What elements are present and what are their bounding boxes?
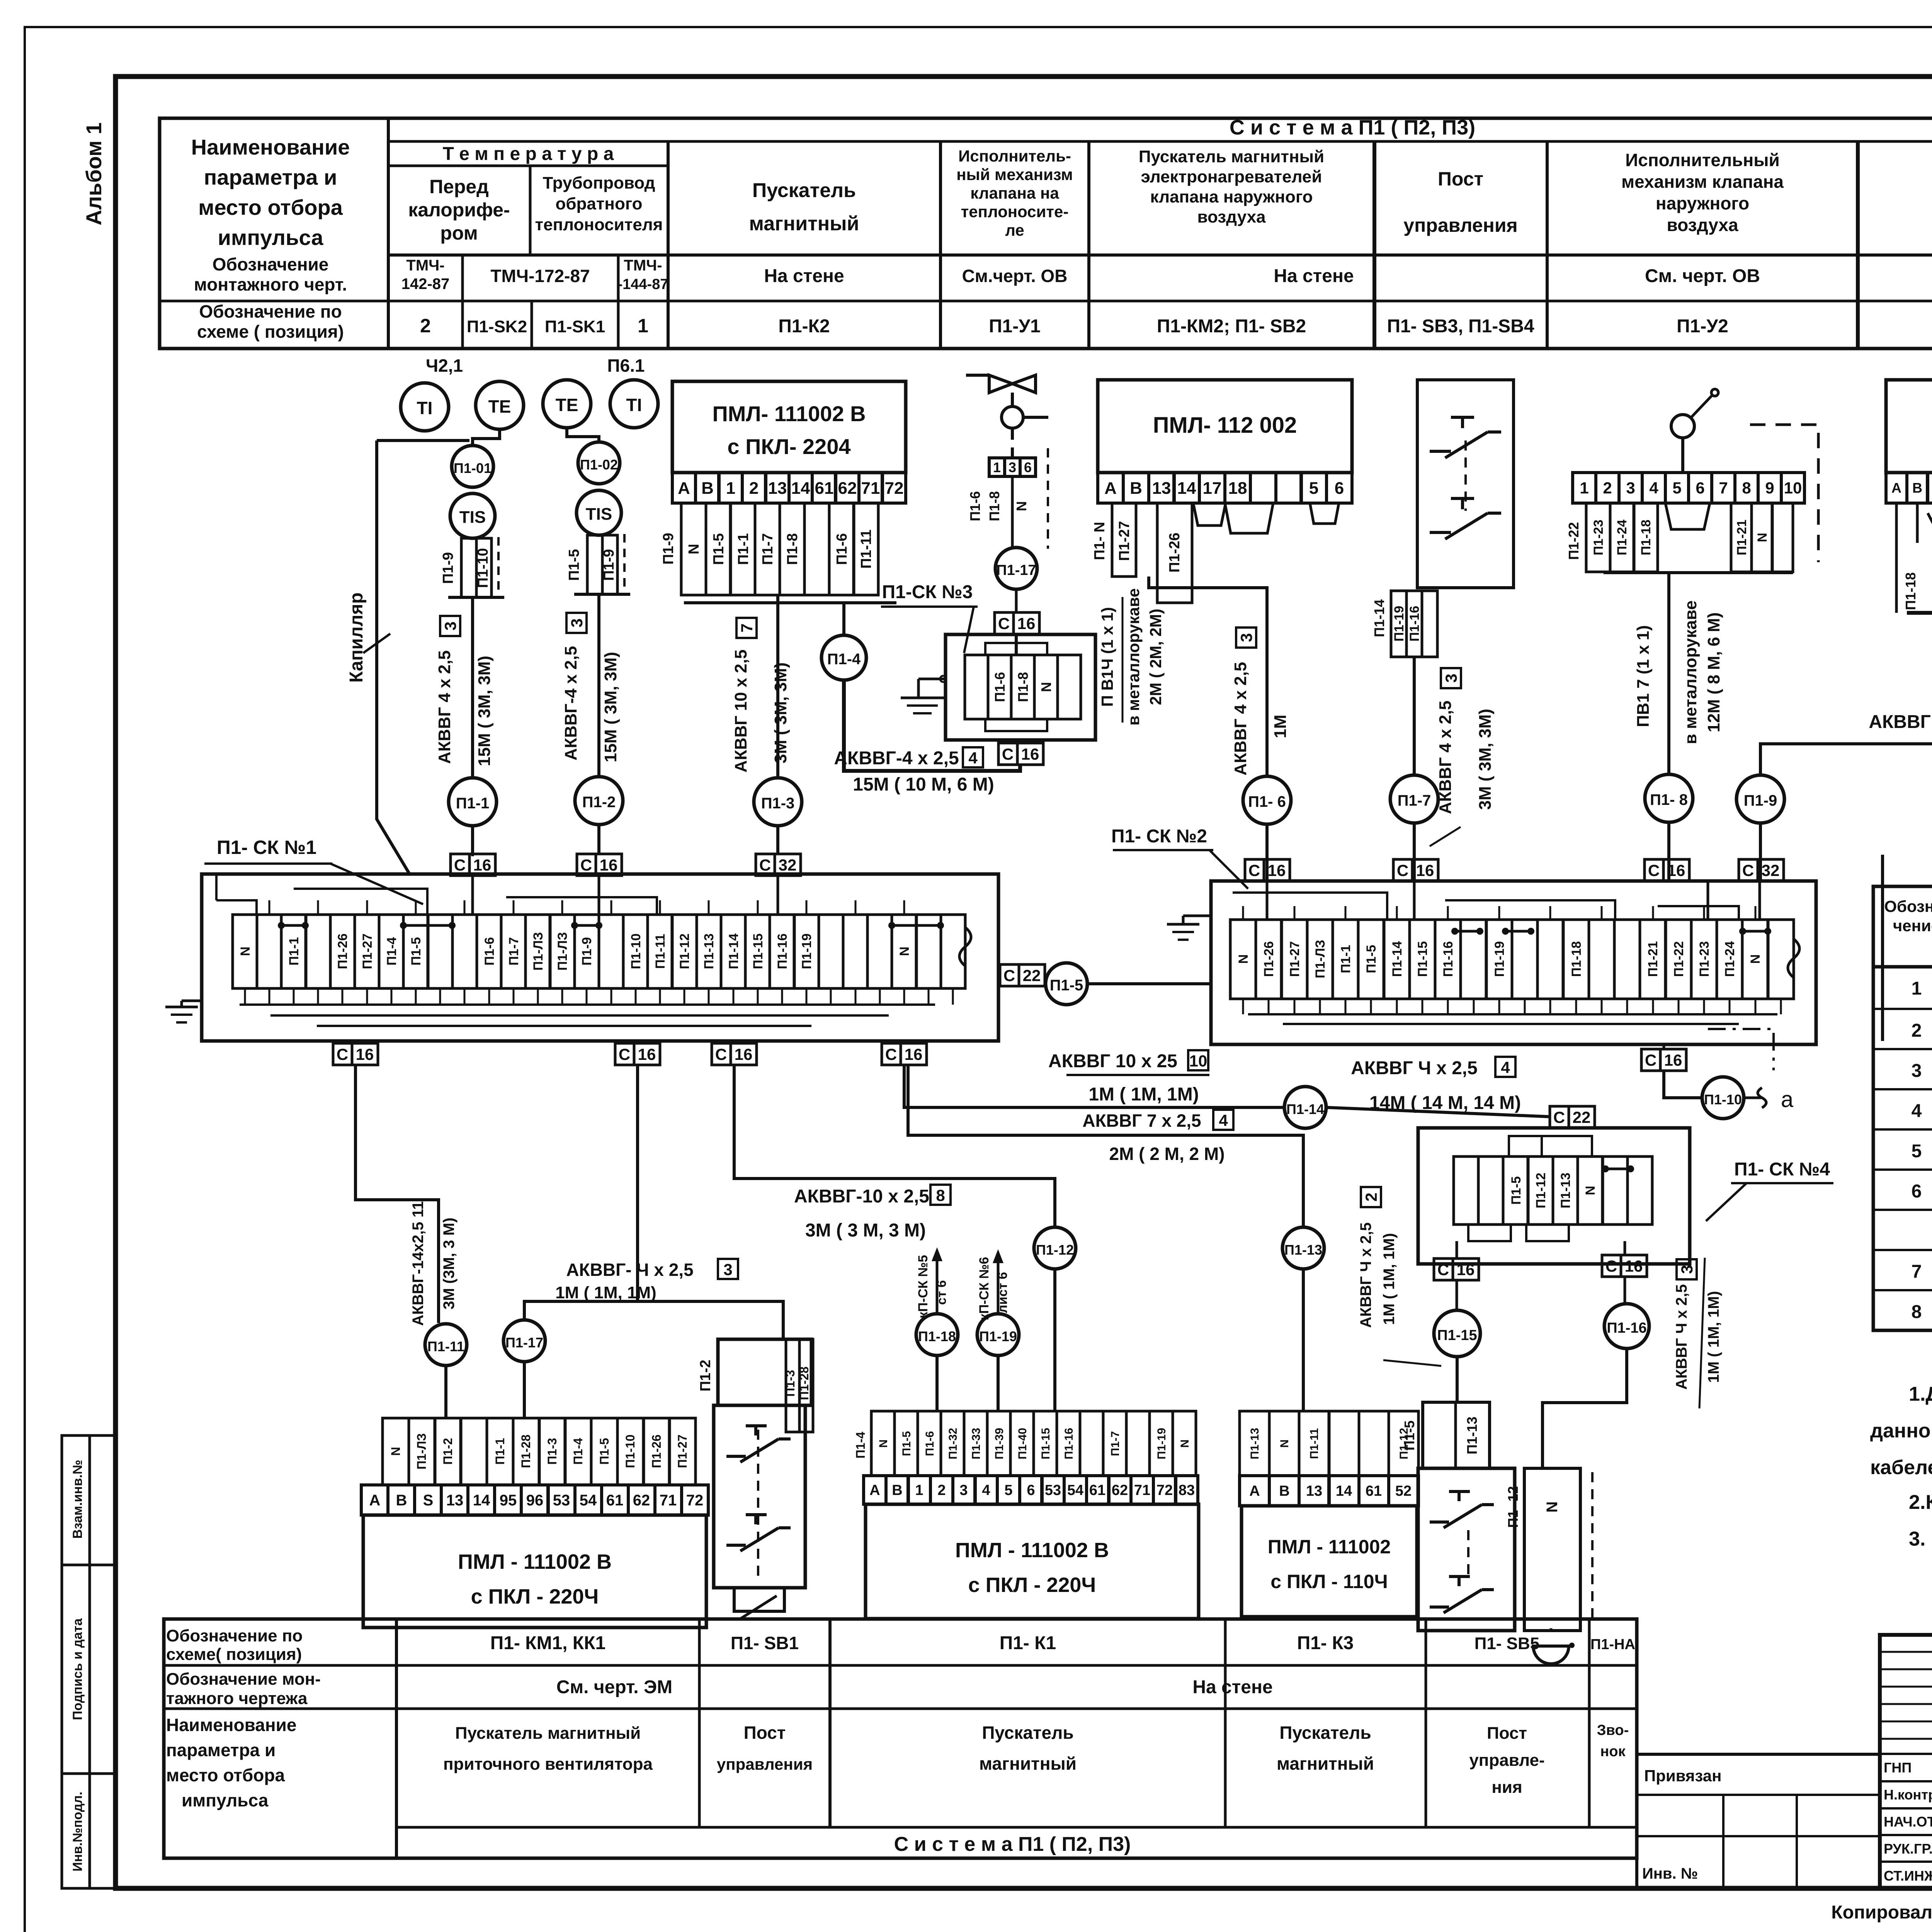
svg-text:71: 71: [1134, 1482, 1150, 1498]
svg-text:53: 53: [553, 1492, 570, 1509]
svg-text:П1-У2: П1-У2: [1677, 316, 1728, 337]
svg-text:П1- SB5: П1- SB5: [1475, 1634, 1540, 1653]
thermostat block: [1417, 380, 1514, 588]
svg-text:П1-19: П1-19: [799, 934, 814, 969]
svg-text:7: 7: [1719, 479, 1728, 497]
svg-text:клапана на: клапана на: [970, 184, 1059, 202]
svg-text:ст 6: ст 6: [934, 1280, 949, 1305]
svg-text:17: 17: [1203, 479, 1222, 498]
svg-text:АКВВГ-14х2,5 11: АКВВГ-14х2,5 11: [410, 1201, 427, 1326]
wire TE to П1-02: [567, 428, 599, 442]
wire П1-3 riser from block: [776, 595, 779, 778]
svg-text:АКВВГ-4 х 2,5: АКВВГ-4 х 2,5: [561, 646, 580, 760]
starter block ПМЛ-151102В: [1886, 380, 1932, 473]
svg-text:с ПКЛ- 2204: с ПКЛ- 2204: [727, 434, 850, 459]
cable label АКВВГ-4х2,5 [3] 1М: [555, 1259, 738, 1302]
svg-text:Обозначение мон-: Обозначение мон-: [166, 1670, 321, 1689]
wire П1-6 riser: [1149, 577, 1267, 776]
svg-text:с ПКЛ - 220Ч: с ПКЛ - 220Ч: [968, 1573, 1096, 1597]
wire to П1-16: [1624, 1277, 1626, 1304]
cable label АКВВГ 10х2,5 [7] 3М: [731, 618, 790, 772]
capillary line: [346, 440, 469, 874]
svg-text:А: А: [1104, 479, 1117, 498]
svg-text:13: 13: [1306, 1483, 1322, 1499]
svg-text:П1-ЛЗ: П1-ЛЗ: [415, 1433, 429, 1469]
wire П1-14 to С22: [1326, 1107, 1550, 1117]
svg-text:TIS: TIS: [459, 508, 486, 527]
svg-text:П1-11: П1-11: [427, 1338, 464, 1354]
svg-text:П1-18: П1-18: [1569, 941, 1584, 977]
svg-text:П1-6: П1-6: [967, 491, 983, 521]
svg-text:15М ( 3М, 3М): 15М ( 3М, 3М): [475, 656, 494, 766]
svg-text:10: 10: [1784, 479, 1802, 497]
left margin attribute boxes: [62, 1435, 116, 1888]
svg-text:П1-9: П1-9: [440, 552, 456, 584]
svg-text:22: 22: [1573, 1108, 1591, 1126]
svg-text:72: 72: [885, 479, 904, 498]
svg-text:П1- N: П1- N: [1092, 522, 1108, 560]
terminal row of ПМЛ-112002: [1098, 473, 1352, 503]
cable label АКВВГ 10х2,5 9 1М: [1869, 712, 1932, 767]
svg-text:управления: управления: [717, 1755, 813, 1773]
svg-text:ТМЧ-172-87: ТМЧ-172-87: [490, 266, 590, 286]
svg-text:АКВВГ 10 х 25: АКВВГ 10 х 25: [1048, 1051, 1177, 1071]
svg-text:С: С: [1397, 861, 1408, 879]
cable marker П1-4: [821, 635, 866, 680]
svg-text:71: 71: [660, 1492, 677, 1509]
svg-text:ПМЛ - 111002: ПМЛ - 111002: [1268, 1536, 1391, 1558]
cable marker П1-19: [977, 1314, 1019, 1355]
svg-text:П1-У1: П1-У1: [989, 316, 1041, 337]
svg-text:16: 16: [1017, 614, 1036, 633]
svg-text:АКВВГ 4 х 2,5: АКВВГ 4 х 2,5: [435, 650, 454, 764]
svg-text:А: А: [369, 1492, 381, 1509]
svg-text:ле: ле: [1005, 221, 1024, 239]
СК1 bottom connector С16 #4: [882, 1043, 927, 1065]
svg-text:14М ( 14 М, 14 М): 14М ( 14 М, 14 М): [1369, 1093, 1521, 1113]
cable marker П1-5: [1045, 963, 1087, 1005]
svg-text:наружного: наружного: [1656, 193, 1749, 213]
cable label АКВВГ 10х25 [10] 1М: [1048, 1050, 1209, 1105]
svg-text:N: N: [389, 1447, 403, 1456]
wire to П1-10: [1664, 1071, 1702, 1098]
dash-dot marker at СК2: [1708, 1029, 1774, 1070]
svg-text:П1-39: П1-39: [993, 1428, 1006, 1459]
svg-text:6: 6: [1912, 1181, 1922, 1202]
svg-text:П1-ЛЗ: П1-ЛЗ: [555, 932, 570, 971]
svg-text:2.Кабель П1-6,П1- 18,П1-19 для: 2.Кабель П1-6,П1- 18,П1-19 для систем П2…: [1909, 1491, 1932, 1514]
svg-text:1: 1: [1580, 479, 1588, 497]
svg-text:61: 61: [1089, 1482, 1105, 1498]
starter body ПМЛ-111002 с ПКЛ-1104: [1242, 1506, 1417, 1617]
svg-text:8: 8: [936, 1186, 945, 1204]
svg-text:Наименование: Наименование: [191, 135, 350, 159]
svg-text:П1- К1: П1- К1: [1000, 1633, 1056, 1653]
svg-text:АКВВГ 4 х 2,5: АКВВГ 4 х 2,5: [1231, 662, 1250, 776]
album label: [82, 122, 106, 226]
ground at СК2: [1167, 916, 1211, 940]
wire П1-4 down to СК3: [844, 680, 1020, 771]
svg-text:П1-14: П1-14: [726, 934, 741, 969]
svg-text:16: 16: [1021, 745, 1039, 763]
svg-text:1: 1: [638, 315, 648, 337]
СК1 terminal strip: [233, 915, 971, 988]
wire TE to П1-01: [473, 429, 500, 446]
svg-text:П1-5: П1-5: [1401, 1420, 1417, 1451]
svg-text:ПМЛ - 111002 В: ПМЛ - 111002 В: [458, 1550, 612, 1573]
svg-text:П1- К3: П1- К3: [1297, 1633, 1354, 1653]
svg-text:6: 6: [1696, 479, 1704, 497]
svg-text:Пост: Пост: [1487, 1724, 1527, 1743]
svg-text:3: 3: [441, 621, 459, 630]
svg-text:импульса: импульса: [218, 225, 323, 250]
СК2 internal wiring top: [1233, 881, 1760, 920]
svg-text:П1-2: П1-2: [582, 794, 616, 811]
arrow reference кП-СК№6: [977, 1249, 1010, 1320]
svg-text:1: 1: [726, 479, 735, 498]
svg-text:импульса: импульса: [182, 1790, 269, 1810]
svg-text:П1-7: П1-7: [1398, 792, 1431, 809]
svg-text:П1-13: П1-13: [1558, 1173, 1573, 1209]
svg-text:16: 16: [638, 1045, 656, 1063]
svg-text:61: 61: [815, 479, 834, 498]
connector box С16 of П1-8: [1645, 822, 1689, 881]
connector С22 of СК4: [1550, 1106, 1595, 1128]
svg-text:См. черт. ЭМ: См. черт. ЭМ: [556, 1677, 672, 1697]
svg-text:П1-3: П1-3: [783, 1370, 797, 1396]
svg-text:П1-15: П1-15: [751, 934, 765, 969]
svg-text:N: N: [877, 1439, 890, 1448]
привязан table: [1637, 1754, 1880, 1888]
cable marker П1-2: [575, 777, 623, 854]
svg-text:ром: ром: [440, 222, 478, 244]
svg-text:П1-28: П1-28: [519, 1434, 533, 1468]
svg-text:2: 2: [1603, 479, 1612, 497]
svg-text:приточного вентилятора: приточного вентилятора: [443, 1755, 653, 1774]
cable label АКВВГ-4х2,5 [3] 15М: [561, 613, 620, 762]
tags П1-N П1-27 П1-26: [1092, 503, 1192, 603]
svg-text:Трубопровод: Трубопровод: [543, 173, 655, 192]
wire П1-13 down: [1302, 1269, 1305, 1411]
svg-text:4: 4: [968, 749, 978, 767]
svg-text:П1-18: П1-18: [1903, 572, 1918, 610]
svg-text:кабелей меняется на „П2, П: кабелей меняется на „П2, П3”: [1870, 1456, 1932, 1479]
cable marker П1-6: [1243, 776, 1291, 824]
СК1 bottom connector С16 #2: [615, 1043, 660, 1065]
svg-text:Перед: Перед: [429, 176, 489, 197]
svg-text:62: 62: [1112, 1482, 1128, 1498]
svg-text:П1-13: П1-13: [702, 934, 716, 969]
svg-text:П1-11: П1-11: [653, 934, 668, 969]
svg-text:Обозначение по: Обозначение по: [166, 1626, 303, 1645]
svg-text:П1-1: П1-1: [735, 533, 752, 565]
svg-text:С: С: [998, 614, 1010, 633]
svg-text:Наименование: Наименование: [166, 1715, 296, 1735]
svg-text:П1-1: П1-1: [456, 795, 490, 812]
wire П1-17 down: [523, 1362, 526, 1418]
svg-text:52: 52: [1395, 1483, 1412, 1499]
svg-text:32: 32: [779, 856, 797, 874]
instrument circle TIS: [450, 493, 495, 538]
svg-text:С: С: [1645, 1051, 1656, 1069]
svg-text:П1-12: П1-12: [1036, 1242, 1074, 1258]
svg-text:С: С: [1553, 1108, 1565, 1126]
svg-text:TE: TE: [488, 396, 511, 417]
svg-text:Зво-: Зво-: [1597, 1722, 1629, 1738]
svg-text:1М ( 1М, 1М): 1М ( 1М, 1М): [1381, 1233, 1398, 1325]
svg-text:62: 62: [838, 479, 857, 498]
svg-text:П1-02: П1-02: [580, 457, 618, 473]
svg-text:16: 16: [1664, 1051, 1682, 1069]
svg-text:1М: 1М: [1271, 714, 1290, 738]
svg-text:61: 61: [1366, 1483, 1382, 1499]
svg-text:П1-5: П1-5: [597, 1438, 611, 1464]
cable marker П1-13: [1282, 1227, 1324, 1269]
svg-text:П1-26: П1-26: [1262, 941, 1276, 977]
top parameter table grid: [160, 118, 1932, 349]
svg-text:П1-14: П1-14: [1371, 599, 1387, 637]
svg-text:Привязан: Привязан: [1644, 1767, 1721, 1785]
svg-text:N: N: [1038, 682, 1054, 692]
wire П1-15 down: [1456, 1357, 1459, 1402]
svg-text:П1-8: П1-8: [784, 533, 801, 565]
junction box П1-СК №4: [1418, 1128, 1690, 1264]
wire to П1-4: [842, 603, 845, 634]
actuator circle: [1002, 406, 1048, 428]
svg-text:ПВ1 7 (1 х 1): ПВ1 7 (1 х 1): [1634, 625, 1653, 727]
svg-text:АКВВГ-10 х 2,5: АКВВГ-10 х 2,5: [794, 1186, 929, 1207]
svg-text:П1-4: П1-4: [384, 937, 399, 966]
svg-text:54: 54: [580, 1492, 597, 1509]
svg-text:N: N: [686, 544, 702, 554]
ground at СК3: [901, 676, 946, 713]
cable label АКВВГ 4х2,5 [2] П1-15: [1357, 1187, 1441, 1366]
svg-text:П1-19: П1-19: [1155, 1428, 1168, 1459]
svg-text:16: 16: [1457, 1260, 1475, 1279]
svg-text:П1-13: П1-13: [1464, 1417, 1480, 1454]
svg-text:П1-10: П1-10: [623, 1434, 637, 1468]
svg-text:П1-5: П1-5: [566, 549, 582, 581]
svg-text:ПМЛ- 111002 В: ПМЛ- 111002 В: [712, 401, 866, 426]
svg-text:32: 32: [1762, 861, 1780, 879]
svg-text:13: 13: [446, 1492, 464, 1509]
svg-text:АКВВГ 10 х 2,5: АКВВГ 10 х 2,5: [731, 650, 750, 772]
svg-text:3: 3: [1626, 479, 1635, 497]
connector box С16 of П1-7: [1393, 823, 1438, 881]
svg-text:10: 10: [1189, 1052, 1207, 1070]
cable marker П1-17 lower: [503, 1320, 545, 1362]
svg-text:4: 4: [982, 1482, 990, 1498]
svg-text:П1-3: П1-3: [545, 1438, 559, 1464]
cable marker П1-02: [578, 442, 620, 484]
svg-text:3: 3: [1912, 1061, 1922, 1081]
title block stamp: [1880, 1635, 1932, 1888]
svg-text:место отбора: место отбора: [166, 1765, 285, 1785]
wire АКВВГ 10х25 П1-14 run: [904, 1065, 1284, 1107]
svg-text:П1- СК №1: П1- СК №1: [217, 837, 316, 858]
svg-text:1: 1: [1912, 978, 1922, 999]
svg-text:14: 14: [1336, 1483, 1352, 1499]
svg-text:15М ( 10 М, 6 М): 15М ( 10 М, 6 М): [853, 774, 994, 795]
svg-text:N: N: [1014, 501, 1029, 511]
instrument circle TE: [476, 381, 524, 429]
svg-text:П1-СК №3: П1-СК №3: [882, 582, 973, 602]
svg-text:магнитный: магнитный: [749, 213, 859, 235]
П1-СК №1 label: [204, 837, 423, 904]
instrument circle TE: [543, 380, 591, 428]
svg-text:7: 7: [738, 623, 756, 632]
svg-text:53: 53: [1045, 1482, 1061, 1498]
svg-text:6: 6: [1027, 1482, 1035, 1498]
svg-text:П1-16: П1-16: [1607, 1320, 1646, 1336]
svg-text:С: С: [454, 856, 466, 874]
svg-text:П1-22: П1-22: [1672, 941, 1686, 977]
terminal cells 1 3 6: [989, 458, 1036, 476]
svg-text:П1-7: П1-7: [1109, 1431, 1122, 1456]
svg-text:16: 16: [600, 856, 618, 874]
svg-text:воздуха: воздуха: [1197, 207, 1266, 226]
cable marker П1-14: [1284, 1087, 1326, 1128]
П1-СК №2 label: [1111, 826, 1248, 889]
svg-text:П1-SK2: П1-SK2: [467, 317, 527, 336]
instrument circle TI: [610, 380, 658, 428]
terminal row 1-10: [1573, 473, 1804, 503]
svg-text:клапана наружного: клапана наружного: [1150, 187, 1313, 206]
svg-text:2М ( 2 М, 2 М): 2М ( 2 М, 2 М): [1109, 1144, 1225, 1164]
svg-text:Подпись и дата: Подпись и дата: [70, 1618, 85, 1720]
arrow reference кП-СК№5: [916, 1247, 949, 1318]
svg-text:С: С: [715, 1045, 727, 1063]
svg-text:П1-15: П1-15: [1415, 941, 1430, 977]
cable marker П1-01: [452, 446, 493, 487]
wire valve down: [1011, 428, 1014, 458]
cable marker П1-10: [1702, 1077, 1744, 1119]
svg-text:лист 6: лист 6: [995, 1272, 1010, 1313]
svg-text:СТ.ИНЖ.: СТ.ИНЖ.: [1884, 1868, 1932, 1884]
svg-text:П1-01: П1-01: [454, 460, 492, 476]
svg-text:в металлорукаве: в металлорукаве: [1124, 588, 1143, 725]
cable label АКВВГ 7х2,5 [4] 2М: [1082, 1110, 1233, 1164]
svg-text:П1-6: П1-6: [923, 1431, 936, 1456]
svg-text:TIS: TIS: [586, 505, 612, 524]
cable marker П1-3: [754, 778, 802, 854]
svg-text:П1-17: П1-17: [996, 562, 1036, 578]
junction box П1-СК №3: [946, 634, 1095, 740]
svg-text:Инв.№подл.: Инв.№подл.: [70, 1792, 85, 1872]
svg-text:П1-5: П1-5: [900, 1431, 913, 1456]
svg-text:схеме ( позиция): схеме ( позиция): [197, 321, 344, 342]
instrument circle TI: [401, 383, 449, 431]
wire П1-19 down: [997, 1355, 1000, 1411]
svg-text:П1-27: П1-27: [1116, 521, 1133, 561]
svg-text:Инв. №: Инв. №: [1642, 1865, 1698, 1882]
svg-text:2: 2: [749, 479, 759, 498]
svg-text:16: 16: [735, 1045, 753, 1063]
svg-text:П1-14: П1-14: [1286, 1101, 1324, 1117]
svg-text:П1-5: П1-5: [711, 533, 727, 565]
svg-text:П1-5: П1-5: [1509, 1176, 1524, 1205]
svg-text:72: 72: [1156, 1482, 1173, 1498]
connector box С16 of П1-17: [995, 589, 1039, 655]
tags П1-22 П1-23 П1-24 П1-18: [1566, 503, 1793, 572]
svg-text:П1- 6: П1- 6: [1248, 793, 1286, 810]
svg-text:Исполнительный: Исполнительный: [1625, 150, 1780, 170]
svg-text:П1-5: П1-5: [409, 937, 423, 966]
svg-text:N: N: [1755, 533, 1770, 543]
svg-text:N: N: [1179, 1439, 1191, 1448]
starter body ПМЛ-111002В с ПКЛ-2204 center: [866, 1504, 1199, 1619]
tag box П1-5 П1-13: [1401, 1402, 1490, 1468]
cable wire П1-2 riser: [597, 594, 600, 777]
svg-text:АКВВГ 7 х 2,5: АКВВГ 7 х 2,5: [1082, 1111, 1201, 1131]
svg-text:N: N: [1748, 954, 1763, 964]
svg-text:2: 2: [420, 315, 431, 337]
ground at СК1: [165, 1001, 198, 1022]
cable marker П1-11: [425, 1324, 467, 1366]
svg-text:С: С: [1248, 861, 1260, 879]
svg-text:18: 18: [1228, 479, 1247, 498]
terminal row of ПМЛ-111002В: [672, 473, 906, 503]
svg-text:В: В: [1279, 1483, 1289, 1499]
svg-text:8: 8: [1912, 1302, 1922, 1322]
svg-text:П1-1: П1-1: [1338, 945, 1353, 973]
svg-text:П1-21: П1-21: [1646, 941, 1660, 977]
П1-СК №3 label: [881, 582, 978, 653]
svg-text:П1-15: П1-15: [1039, 1428, 1052, 1459]
svg-text:в металлорукаве: в металлорукаве: [1681, 600, 1700, 744]
svg-text:АКВВГ Ч х 2,5: АКВВГ Ч х 2,5: [1673, 1284, 1690, 1389]
svg-text:обратного: обратного: [555, 194, 642, 213]
svg-text:П1-26: П1-26: [650, 1434, 663, 1468]
svg-text:96: 96: [526, 1492, 544, 1509]
cable marker П1-8: [1645, 774, 1693, 822]
svg-text:П1-16: П1-16: [1407, 606, 1422, 642]
svg-text:П1-19: П1-19: [1492, 941, 1507, 977]
svg-text:16: 16: [1416, 861, 1434, 879]
svg-text:Н.контр: Н.контр: [1884, 1787, 1932, 1803]
svg-text:Т е м п е р а т у р а: Т е м п е р а т у р а: [443, 144, 614, 164]
svg-text:П1-6: П1-6: [482, 937, 497, 966]
svg-text:П1-6: П1-6: [992, 672, 1008, 702]
svg-text:С: С: [619, 1045, 630, 1063]
svg-text:ГНП: ГНП: [1884, 1760, 1912, 1776]
svg-text:83: 83: [1179, 1482, 1195, 1498]
svg-text:П1-27: П1-27: [675, 1434, 689, 1468]
svg-text:3: 3: [723, 1260, 732, 1279]
СК2 terminal strip: [1230, 920, 1799, 999]
cable label АКВВГ 4х2,5 [3] 3М: [1430, 668, 1495, 846]
svg-text:П1- СК №2: П1- СК №2: [1111, 826, 1207, 847]
svg-text:П1-32: П1-32: [947, 1428, 959, 1459]
svg-text:1: 1: [915, 1482, 923, 1498]
svg-text:П1-23: П1-23: [1591, 520, 1606, 556]
svg-text:72: 72: [686, 1492, 704, 1509]
svg-text:61: 61: [606, 1492, 624, 1509]
svg-text:схеме( позиция): схеме( позиция): [166, 1645, 302, 1664]
svg-text:П1-8: П1-8: [986, 491, 1002, 521]
svg-text:С и с т е м а П1 ( П2,: С и с т е м а П1 ( П2, П3): [1230, 116, 1475, 139]
svg-text:П1-16: П1-16: [1441, 941, 1456, 977]
svg-text:22: 22: [1023, 966, 1041, 985]
svg-text:данной. Индекс „П1” в обозначе: данной. Индекс „П1” в обозначении аппара…: [1870, 1420, 1932, 1442]
svg-text:нок: нок: [1600, 1743, 1626, 1760]
jumper loops under terminals: [1193, 503, 1339, 533]
terminal pair box П1-5 П1-9: [566, 534, 630, 594]
terminal row ПКЛ-1104 block: [1240, 1476, 1418, 1506]
svg-text:место отбора: место отбора: [198, 195, 343, 219]
П1-СК №4 label: [1706, 1159, 1833, 1221]
svg-text:4: 4: [1501, 1058, 1510, 1077]
